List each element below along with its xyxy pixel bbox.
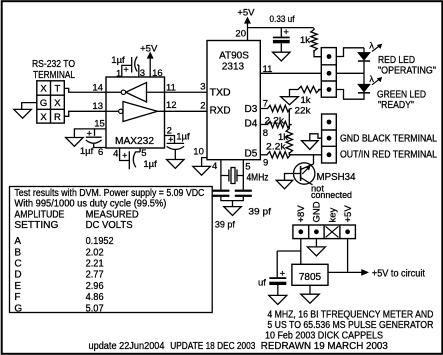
svg-text:22k: 22k	[295, 106, 311, 117]
svg-text:B: B	[14, 247, 21, 258]
svg-text:+: +	[168, 135, 173, 145]
svg-text:E: E	[14, 281, 21, 292]
ground (pin10)	[193, 166, 211, 175]
svg-text:1k: 1k	[301, 95, 311, 106]
svg-text:+: +	[87, 128, 92, 138]
wire J2 top to LED D1	[336, 48, 364, 57]
wire U1 pin15	[74, 129, 106, 138]
svg-text:T: T	[54, 84, 60, 95]
ground (C4)	[167, 160, 185, 169]
svg-text:+5V to circuit: +5V to circuit	[372, 269, 425, 280]
svg-text:F: F	[14, 292, 20, 303]
svg-text:+: +	[280, 268, 286, 279]
svg-text:X: X	[54, 98, 61, 109]
svg-text:1: 1	[116, 69, 121, 80]
svg-text:+: +	[122, 151, 127, 161]
svg-text:key: key	[327, 207, 338, 222]
svg-text:GREEN LED: GREEN LED	[377, 90, 426, 101]
svg-text:7805: 7805	[299, 272, 322, 283]
svg-text:1µf: 1µf	[143, 159, 157, 170]
svg-text:1k: 1k	[300, 35, 310, 46]
svg-text:DC VOLTS: DC VOLTS	[86, 220, 133, 231]
wire collector Q1	[313, 155, 315, 164]
wire J2 mid to LEDs	[336, 73, 364, 84]
wire J1 T to MAX232 pin14	[64, 88, 106, 92]
svg-text:AMPLITUDE: AMPLITUDE	[14, 209, 64, 220]
svg-text:1µf: 1µf	[80, 146, 94, 157]
svg-text:16: 16	[152, 68, 163, 79]
svg-text:D3: D3	[245, 104, 258, 115]
svg-text:10 Feb 2003 DICK CAPPELS: 10 Feb 2003 DICK CAPPELS	[265, 331, 383, 342]
svg-text:MAX232: MAX232	[115, 136, 154, 147]
wire U1 pin12 to RXD	[165, 110, 208, 112]
connector J2 LED header	[321, 48, 336, 98]
capacitor C4 1uf (pin2)	[165, 136, 175, 144]
svg-text:4: 4	[113, 148, 118, 159]
wire J1 R to MAX232 pin13	[64, 111, 106, 116]
svg-text:With 995/1000 us duty cycle (: With 995/1000 us duty cycle (99.5%)	[14, 199, 166, 210]
svg-text:4 MHZ, 16 BI TFREQUENCY METER: 4 MHZ, 16 BI TFREQUENCY METER AND	[267, 309, 433, 320]
ground (pin15)	[66, 138, 84, 147]
svg-text:λ: λ	[369, 41, 374, 51]
wire J4 GND to ground	[315, 239, 317, 247]
svg-text:A: A	[14, 236, 21, 247]
wire node D3-D4	[288, 109, 290, 128]
svg-text:MEASURED: MEASURED	[86, 209, 139, 220]
svg-text:9: 9	[263, 157, 268, 168]
svg-text:10: 10	[193, 147, 204, 158]
connector J1 RS-232	[37, 81, 65, 123]
svg-text:5: 5	[141, 148, 146, 159]
svg-text:TERMINAL: TERMINAL	[33, 70, 75, 81]
svg-text:2.02: 2.02	[86, 247, 104, 258]
ground (C5)	[273, 52, 291, 61]
svg-text:λ: λ	[369, 74, 374, 84]
wire R1 to header	[314, 50, 321, 57]
wire U2 pin11 to LED header	[260, 72, 321, 74]
ground J1	[14, 109, 32, 118]
wire D5 row to terminal	[289, 154, 321, 156]
light arrow D1	[372, 45, 380, 51]
wire U2 pin5	[242, 160, 244, 190]
svg-text:20: 20	[235, 29, 246, 40]
svg-text:5: 5	[245, 162, 250, 173]
wire junction to C8	[277, 251, 301, 277]
svg-text:5.07: 5.07	[86, 303, 104, 314]
connector J4 power header	[293, 225, 356, 239]
svg-text:+5V: +5V	[237, 7, 255, 18]
IC U2 AT90S2313	[207, 41, 260, 160]
svg-text:SETTING: SETTING	[14, 220, 58, 231]
svg-text:uf: uf	[258, 277, 266, 288]
svg-text:39 pf: 39 pf	[215, 220, 235, 231]
svg-text:4MHz: 4MHz	[247, 173, 269, 184]
wire J3 mid to ground	[310, 134, 322, 141]
svg-text:+5V: +5V	[343, 205, 354, 223]
crystal Y1 4MHz	[221, 170, 229, 182]
wire +5V drop	[347, 239, 349, 273]
connector J3 terminals	[322, 114, 337, 163]
LED D1 red	[358, 53, 370, 61]
resistor R3 2.2k	[266, 105, 292, 111]
capacitor C2 1uf (pin15-6)	[94, 129, 96, 136]
svg-text:GND BLACK TERMINAL: GND BLACK TERMINAL	[340, 134, 437, 145]
ground (J4)	[307, 247, 325, 256]
svg-text:7: 7	[263, 98, 268, 109]
svg-text:2: 2	[200, 100, 205, 111]
svg-text:6: 6	[98, 147, 103, 158]
wire C8 to ground	[277, 285, 279, 295]
svg-text:+: +	[283, 27, 289, 38]
ground (J3)	[302, 141, 319, 150]
svg-text:R: R	[54, 112, 61, 123]
resistor R4 2.2k	[266, 121, 292, 127]
inverter U1B	[106, 110, 119, 112]
capacitor C8 uf	[269, 277, 286, 279]
wire U1 pin11 to TXD	[165, 91, 208, 93]
svg-text:12: 12	[166, 100, 177, 111]
svg-text:+5V: +5V	[140, 43, 158, 54]
svg-text:OUT/IN RED TERMINAL: OUT/IN RED TERMINAL	[340, 150, 437, 161]
svg-text:13: 13	[92, 101, 103, 112]
light arrow D2	[372, 79, 380, 85]
test results table	[10, 187, 213, 313]
transistor Q1 MPSH34	[294, 163, 315, 184]
svg-text:G: G	[14, 303, 22, 314]
svg-text:RXD: RXD	[210, 106, 231, 117]
capacitor C7 39pf	[235, 190, 252, 192]
svg-text:D4: D4	[245, 119, 258, 130]
wire U3 output	[328, 271, 366, 273]
svg-text:X: X	[40, 84, 47, 95]
wire U2 pin4	[220, 160, 222, 190]
ground (R2)	[281, 97, 299, 105]
svg-text:1µf: 1µf	[176, 132, 190, 143]
svg-text:UPDATE 18 DEC 2003: UPDATE 18 DEC 2003	[170, 341, 255, 352]
svg-text:Test results with DVM. Power s: Test results with DVM. Power supply = 5.…	[14, 188, 204, 199]
svg-text:2.96: 2.96	[86, 281, 104, 292]
svg-text:AT90S: AT90S	[219, 50, 249, 61]
wire U2 pin9	[260, 154, 265, 156]
svg-text:D: D	[14, 270, 21, 281]
capacitor C6 39pf	[212, 190, 229, 192]
svg-text:2.77: 2.77	[86, 270, 104, 281]
wire U2 pin10 to ground	[202, 158, 207, 167]
svg-text:3: 3	[140, 68, 145, 79]
ground (caps)	[224, 207, 242, 216]
svg-text:2.21: 2.21	[86, 259, 104, 270]
svg-text:TXD: TXD	[210, 87, 231, 98]
svg-text:update 22Jun2004: update 22Jun2004	[89, 341, 165, 352]
ground (U3)	[301, 294, 320, 303]
wire R5 to D5 row	[288, 152, 290, 155]
svg-text:0.1952: 0.1952	[86, 236, 114, 247]
LED D2 green	[358, 84, 370, 92]
svg-text:connected: connected	[311, 190, 352, 200]
op-amp U1 MAX232 body	[106, 77, 165, 148]
svg-text:14: 14	[92, 83, 103, 94]
wire caps to ground	[221, 197, 243, 207]
svg-text:4.86: 4.86	[86, 292, 104, 303]
svg-text:2313: 2313	[222, 62, 245, 73]
regulator U3 7805	[292, 264, 328, 285]
wire U3 to ground	[309, 285, 311, 294]
svg-text:3: 3	[200, 81, 205, 92]
svg-text:GND: GND	[312, 201, 323, 222]
svg-text:X: X	[40, 112, 47, 123]
svg-text:4: 4	[212, 161, 217, 172]
svg-text:0.33 uf: 0.33 uf	[270, 14, 295, 25]
wire J1 G to ground	[22, 103, 37, 110]
svg-text:MPSH34: MPSH34	[317, 172, 356, 183]
svg-text:C: C	[14, 259, 21, 270]
svg-text:D5: D5	[245, 149, 258, 160]
svg-text:REDRAWN 19 MARCH 2003: REDRAWN 19 MARCH 2003	[261, 341, 388, 352]
wire U2 pin7	[260, 108, 266, 110]
svg-text:15: 15	[94, 118, 105, 129]
ground (Q1)	[276, 180, 293, 189]
svg-text:"OPERATING": "OPERATING"	[378, 66, 436, 77]
wire +5V rail	[248, 27, 314, 29]
svg-text:G: G	[40, 98, 47, 109]
svg-text:39 pf: 39 pf	[248, 207, 271, 218]
svg-text:+: +	[123, 65, 128, 75]
resistor R6 2.2k	[266, 152, 292, 158]
ground (C8)	[269, 295, 287, 304]
svg-text:2.2k: 2.2k	[266, 142, 286, 153]
inverter U1A	[126, 83, 165, 103]
svg-text:RS-232 TO: RS-232 TO	[32, 59, 75, 70]
svg-text:8: 8	[263, 128, 268, 139]
capacitor C3 1uf (pins 4-5)	[120, 148, 130, 169]
svg-text:+8V: +8V	[296, 205, 307, 223]
wire base Q1 to ground	[285, 174, 301, 181]
svg-text:"READY": "READY"	[378, 100, 414, 111]
wire U2 pin8	[260, 124, 266, 126]
wire +8V to regulator	[300, 239, 302, 265]
